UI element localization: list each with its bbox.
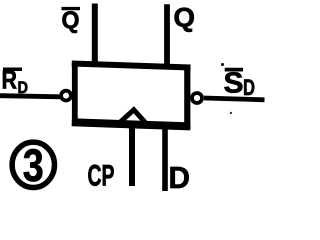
svg-text:3: 3	[23, 140, 44, 191]
svg-text:D: D	[18, 78, 29, 97]
svg-text:Q: Q	[62, 7, 80, 34]
svg-text:D: D	[243, 75, 255, 100]
svg-text:D: D	[169, 160, 191, 195]
svg-text:CP: CP	[88, 159, 115, 192]
svg-text:S: S	[224, 67, 244, 99]
svg-text:Q: Q	[174, 3, 196, 33]
svg-text:R: R	[2, 65, 18, 95]
